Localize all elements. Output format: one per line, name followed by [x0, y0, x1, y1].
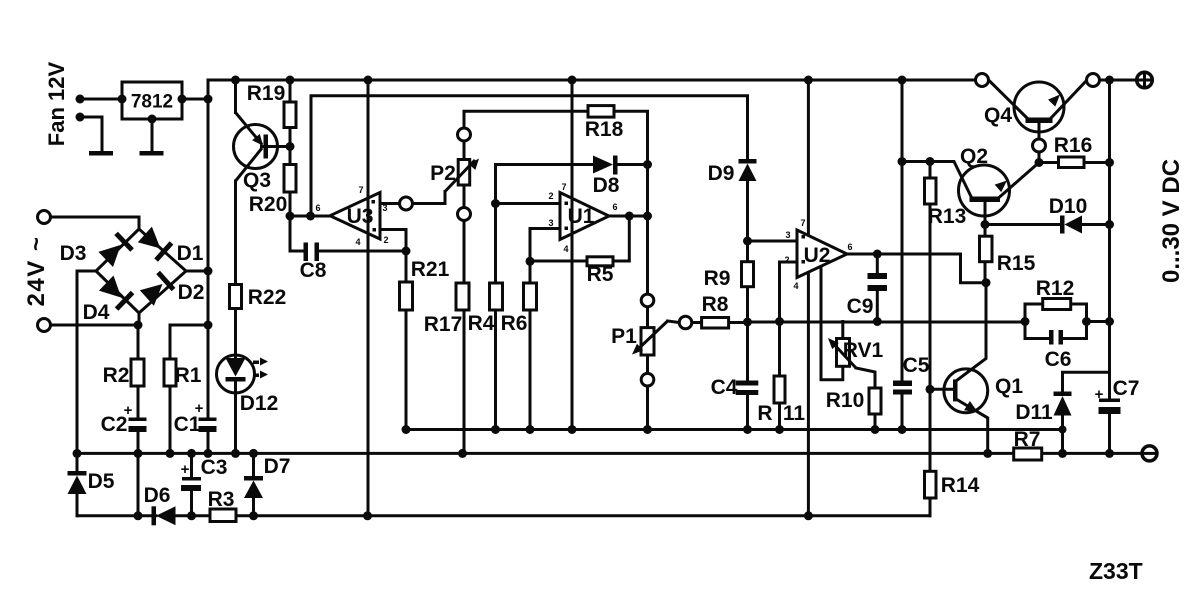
svg-text:2: 2: [548, 191, 553, 201]
svg-text:Q1: Q1: [995, 375, 1023, 398]
svg-text:R17: R17: [424, 313, 463, 336]
svg-text:U3: U3: [347, 205, 374, 228]
svg-text:7: 7: [561, 182, 566, 192]
svg-text:D5: D5: [88, 470, 115, 493]
svg-text:3: 3: [382, 203, 387, 213]
svg-text:R9: R9: [704, 267, 731, 290]
svg-text:R20: R20: [249, 193, 288, 216]
svg-text:D9: D9: [708, 162, 735, 185]
svg-text:R14: R14: [941, 474, 980, 497]
svg-text:D3: D3: [60, 242, 87, 265]
svg-text:C3: C3: [201, 456, 228, 479]
svg-text:D11: D11: [1015, 401, 1053, 424]
svg-text:3: 3: [785, 230, 790, 240]
svg-text:4: 4: [563, 244, 568, 254]
svg-text:6: 6: [612, 202, 617, 212]
svg-text:7: 7: [358, 185, 363, 195]
svg-text:D7: D7: [264, 455, 291, 478]
svg-text:R22: R22: [248, 286, 287, 309]
svg-text:R: R: [757, 402, 772, 425]
svg-text:4: 4: [793, 281, 798, 291]
svg-text:D6: D6: [144, 484, 171, 507]
svg-text:4: 4: [355, 237, 360, 247]
svg-text:+: +: [195, 400, 204, 417]
svg-text:R2: R2: [103, 364, 130, 387]
svg-text:D4: D4: [83, 301, 110, 324]
svg-text:P2: P2: [430, 162, 456, 185]
svg-text:11: 11: [783, 402, 806, 425]
svg-text:R12: R12: [1036, 277, 1075, 300]
svg-text:2: 2: [784, 255, 789, 265]
svg-text:7812: 7812: [131, 92, 173, 113]
svg-text:C7: C7: [1113, 377, 1140, 400]
svg-text:R5: R5: [587, 263, 614, 286]
svg-text:D8: D8: [593, 174, 620, 197]
svg-text:24V ~: 24V ~: [23, 236, 50, 307]
svg-text:R1: R1: [175, 364, 202, 387]
svg-text:R18: R18: [585, 118, 624, 141]
svg-text:U1: U1: [568, 205, 595, 228]
svg-text:Q4: Q4: [984, 104, 1012, 127]
svg-text:Q2: Q2: [960, 145, 988, 168]
svg-text:6: 6: [847, 242, 852, 252]
svg-text:R6: R6: [501, 312, 528, 335]
svg-text:0...30 V DC: 0...30 V DC: [1158, 159, 1185, 283]
svg-text:R21: R21: [411, 258, 450, 281]
svg-text:Fan 12V: Fan 12V: [44, 61, 69, 146]
svg-text:+: +: [1095, 386, 1104, 403]
svg-text:R13: R13: [928, 205, 967, 228]
svg-text:D2: D2: [178, 281, 205, 304]
svg-text:R4: R4: [468, 312, 495, 335]
svg-text:R3: R3: [208, 488, 235, 511]
svg-text:U2: U2: [804, 244, 831, 267]
svg-text:C8: C8: [300, 259, 327, 282]
svg-text:Z33T: Z33T: [1089, 558, 1143, 584]
svg-text:R7: R7: [1014, 428, 1041, 451]
svg-text:C4: C4: [711, 376, 738, 399]
svg-text:Q3: Q3: [243, 169, 271, 192]
svg-text:6: 6: [315, 203, 320, 213]
svg-text:C6: C6: [1045, 348, 1072, 371]
svg-text:C5: C5: [903, 354, 930, 377]
svg-text:R8: R8: [702, 293, 729, 316]
svg-text:R19: R19: [247, 82, 286, 105]
svg-text:C9: C9: [847, 295, 874, 318]
svg-text:RV1: RV1: [843, 339, 884, 362]
svg-text:3: 3: [548, 218, 553, 228]
svg-text:7: 7: [800, 218, 805, 228]
svg-text:+: +: [181, 461, 190, 478]
svg-text:+: +: [124, 402, 133, 419]
svg-text:P1: P1: [611, 325, 637, 348]
svg-text:2: 2: [383, 235, 388, 245]
svg-text:D1: D1: [177, 242, 204, 265]
svg-text:D10: D10: [1049, 195, 1088, 218]
svg-text:D12: D12: [240, 392, 279, 415]
svg-text:R16: R16: [1054, 134, 1093, 157]
svg-text:R15: R15: [997, 252, 1036, 275]
svg-text:R10: R10: [826, 389, 865, 412]
